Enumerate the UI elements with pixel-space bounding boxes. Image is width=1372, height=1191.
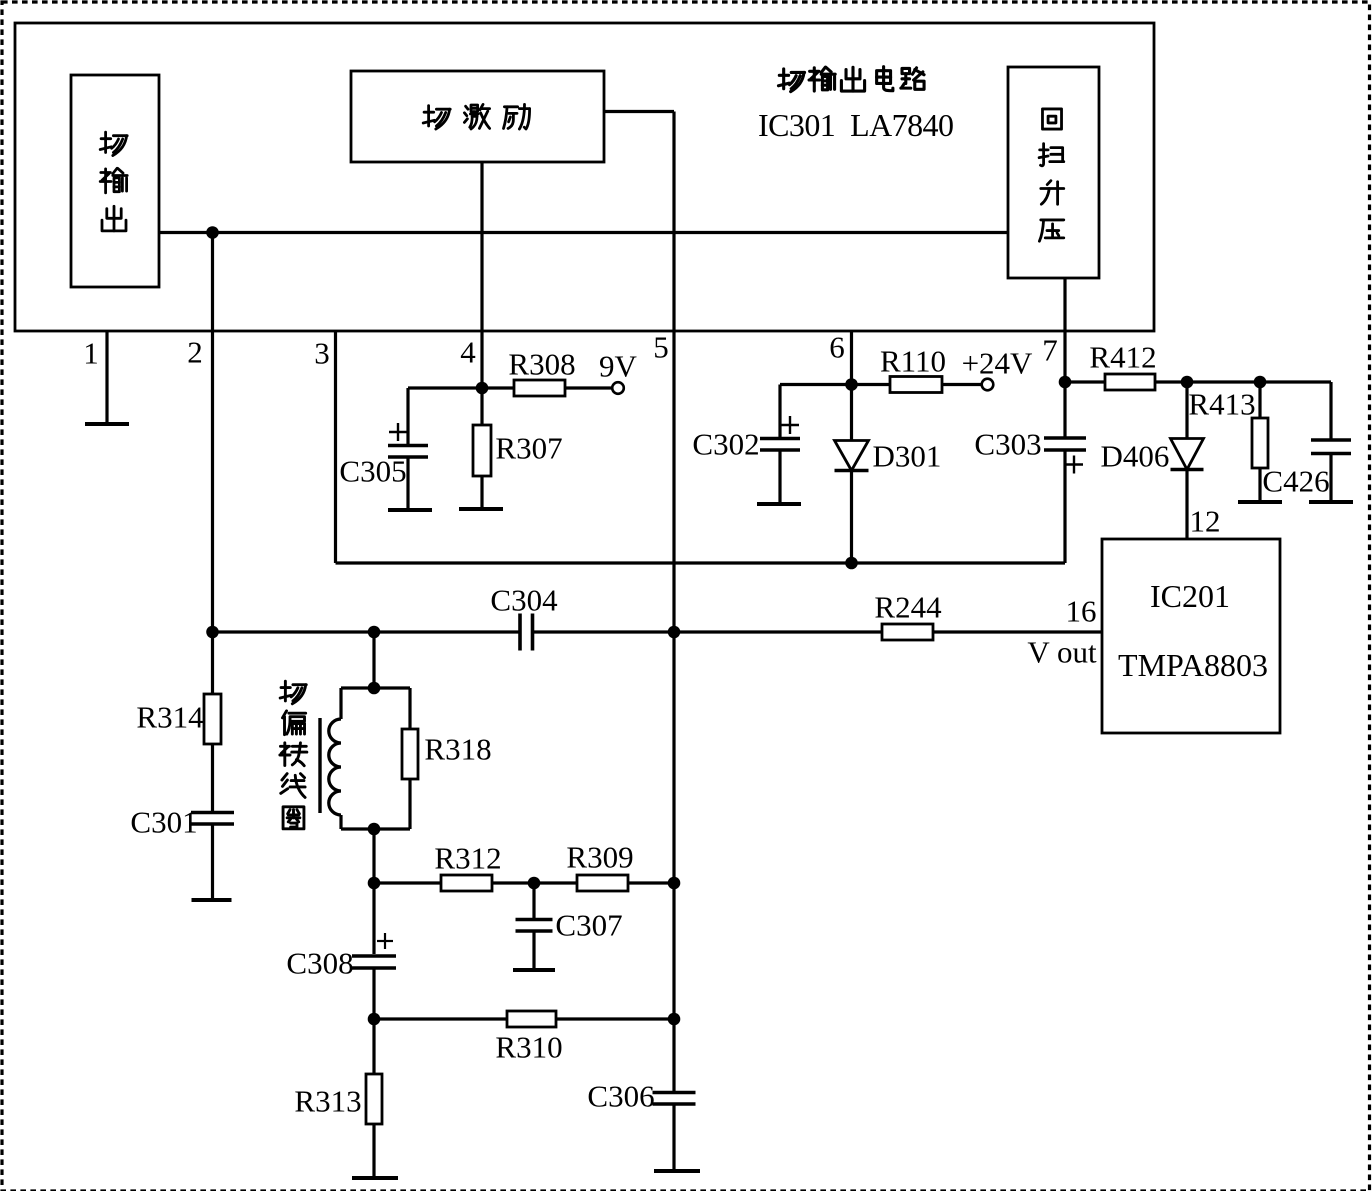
svg-text:C306: C306 [587,1079,654,1114]
wire: pin 6 vertical [850,331,853,440]
node [206,626,219,639]
svg-text:R318: R318 [424,732,491,767]
svg-text:C308: C308 [286,946,353,981]
svg-text:R310: R310 [495,1030,562,1065]
wire [211,632,214,694]
wire: main bus to IC201 pin16 [213,630,521,633]
ground C305 [388,508,432,512]
svg-text:R312: R312 [434,841,501,876]
svg-text:R314: R314 [136,700,204,735]
wire: branch to coil [372,632,375,688]
node: junction pin2 bus [206,226,219,239]
svg-text:9V: 9V [599,349,638,384]
svg-text:C304: C304 [490,583,558,618]
svg-text:+24V: +24V [962,346,1033,381]
resistor R244 [882,624,933,640]
wire [374,1017,507,1020]
diode D301 [835,441,869,471]
svg-text:TMPA8803: TMPA8803 [1118,647,1268,683]
wire [211,825,214,900]
label 场输出电路 [778,69,804,92]
node: D301 bottom junction [845,557,858,570]
wire [372,883,375,954]
node [368,1013,381,1026]
wire [406,458,409,510]
svg-text:D406: D406 [1101,439,1170,474]
wire [532,883,535,918]
svg-text:IC201: IC201 [1150,578,1230,614]
svg-text:R413: R413 [1188,387,1255,422]
wire [1063,451,1066,563]
wire: D301 cathode down [850,471,853,564]
coil core bar [318,718,321,813]
node: R413 junction [1254,376,1267,389]
svg-text:R313: R313 [294,1084,361,1119]
block 回扫升压 (flyback boost) [1008,67,1099,278]
terminal 9V [612,382,624,394]
ground C426 [1309,500,1353,504]
block 场激励 (field drive) [351,71,604,162]
node [668,1013,681,1026]
node: D406 junction [1181,376,1194,389]
wire [1329,382,1332,439]
wire: pin 5 vertical [672,112,675,1092]
wire [408,688,411,729]
svg-text:IC301 LA7840: IC301 LA7840 [758,107,954,143]
wire [480,388,483,425]
svg-text:C301: C301 [130,805,197,840]
node [668,626,681,639]
wire [672,1105,675,1171]
node: pin7 junction [1059,376,1072,389]
svg-text:6: 6 [829,330,845,365]
inductor: field deflection coil [339,688,342,719]
ground pin1 [85,422,129,426]
svg-text:1: 1 [83,336,99,371]
wire: D406 to pin 12 [1185,470,1188,540]
wire: pin 7 vertical from 回扫升压 [1063,278,1066,438]
wire [628,881,674,884]
svg-text:V out: V out [1027,635,1097,670]
wire [372,969,375,1019]
svg-text:7: 7 [1042,333,1058,368]
wire [374,881,441,884]
capacitor C303 [1044,436,1086,440]
svg-text:R412: R412 [1089,340,1156,375]
capacitor C302 [760,437,800,441]
svg-text:R309: R309 [566,840,633,875]
capacitor C304 [518,614,522,651]
deflection coil loop bottom [341,827,410,830]
wire: inner bottom bus y563 [336,561,1066,564]
svg-text:2: 2 [187,335,203,370]
ground C306 [654,1169,700,1173]
svg-text:R110: R110 [880,344,946,379]
svg-text:4: 4 [460,335,476,370]
capacitor C305 [388,444,428,448]
wire: pin 2 vertical [211,233,214,633]
node [668,877,681,890]
ground C307 [513,968,555,972]
svg-text:R308: R308 [508,347,575,382]
ground R413 [1238,500,1282,504]
wire [534,881,577,884]
wire: pin 1 down [105,331,108,424]
wire [778,451,781,504]
capacitor C306 [653,1091,696,1095]
node [368,682,381,695]
ground R313 [352,1176,398,1180]
svg-text:R244: R244 [874,590,942,625]
svg-text:R307: R307 [495,431,562,466]
node [368,626,381,639]
label 场偏转线圈 [280,681,306,704]
node [368,823,381,836]
block 场输出 (field output) [71,75,159,287]
svg-text:C302: C302 [692,427,759,462]
node [528,877,541,890]
wire [1185,382,1188,439]
wire: pin4 to C305 [408,386,482,389]
wire: coil to R312 bus [372,829,375,883]
wire: 场输出 to 回扫升压 horizontal bus [159,231,1008,234]
wire [492,881,534,884]
svg-text:12: 12 [1190,504,1221,539]
svg-text:3: 3 [314,336,330,371]
node: pin6 junction [845,378,858,391]
node: pin4 junction [476,382,489,395]
wire: 场激励 right to pin5 drop [604,110,674,113]
wire [532,932,535,970]
wire [482,386,514,389]
svg-text:C307: C307 [555,908,622,943]
wire: pin 3 vertical [334,331,337,563]
svg-text:5: 5 [653,330,669,365]
terminal +24V [982,379,994,391]
ground C302 [757,502,801,506]
wire [1329,455,1332,502]
svg-text:C303: C303 [974,427,1041,462]
wire [852,383,891,386]
svg-text:16: 16 [1066,594,1097,629]
wire: pin6 to C302 [780,383,852,386]
svg-text:C305: C305 [339,454,406,489]
IC IC201 TMPA8803 [1102,539,1280,733]
capacitor C301 [191,811,234,815]
svg-text:D301: D301 [873,439,942,474]
svg-text:C426: C426 [1262,464,1329,499]
IC301 block outline [15,23,1154,331]
wire [1258,382,1261,418]
ground R307 [459,507,503,511]
wire [372,1019,375,1074]
wire [1065,380,1105,383]
node [368,877,381,890]
wire: 场激励 bottom to pin 4 [480,162,483,388]
deflection coil loop top [341,686,410,689]
ground C301 [192,898,232,902]
